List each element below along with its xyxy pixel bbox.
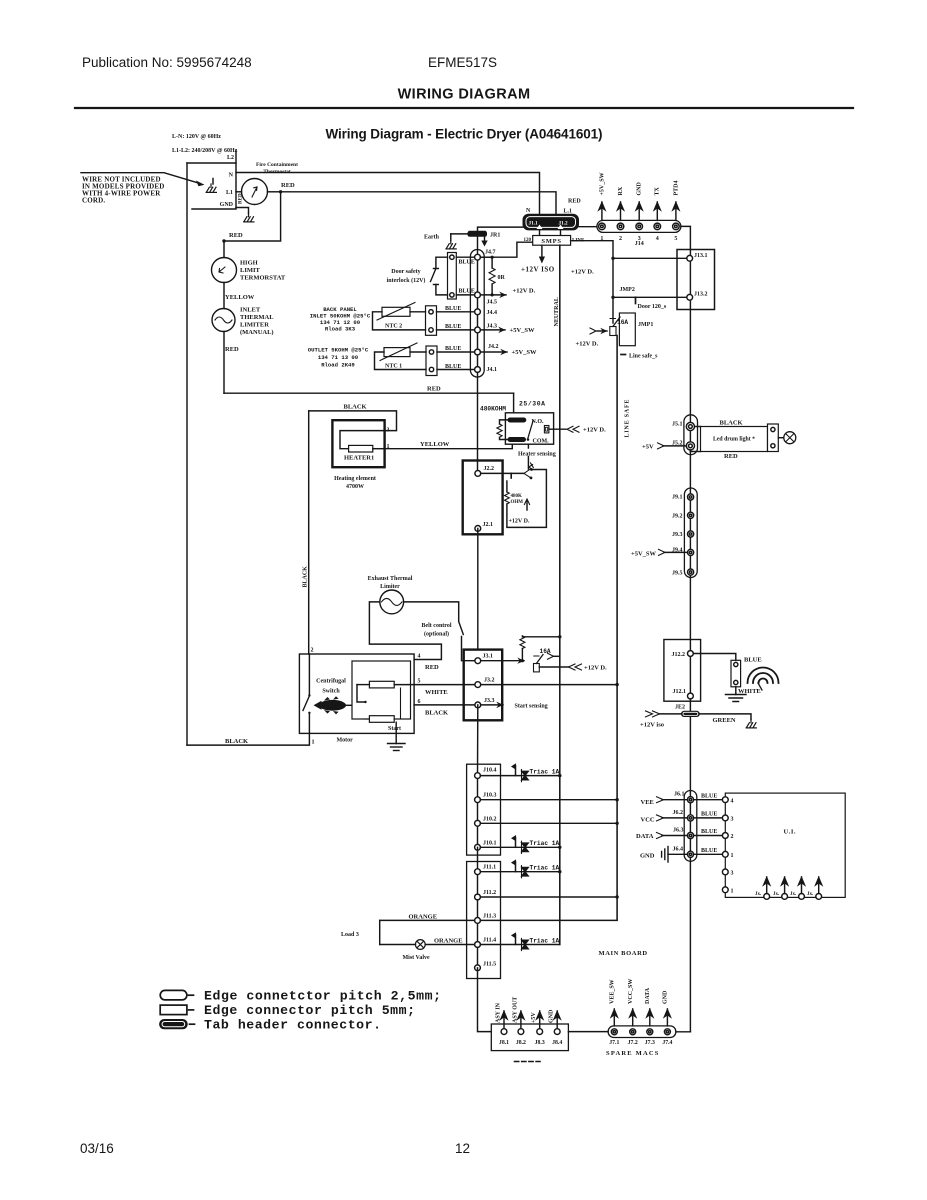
svg-text:Line safe_s: Line safe_s	[629, 353, 658, 359]
svg-text:+5V_SW: +5V_SW	[512, 349, 538, 356]
svg-text:4: 4	[731, 799, 734, 805]
svg-text:J3.3: J3.3	[484, 698, 495, 704]
svg-text:OUTLET 5KOHM @25°C: OUTLET 5KOHM @25°C	[308, 347, 369, 354]
resistor 0R	[480, 257, 492, 268]
svg-text:L1: L1	[226, 190, 233, 196]
svg-text:3: 3	[387, 428, 390, 434]
svg-text:interlock (12V): interlock (12V)	[387, 277, 426, 284]
svg-text:NTC 2: NTC 2	[385, 324, 402, 330]
power terminal box	[187, 163, 236, 209]
ground at L1 (4-wire note target)	[212, 179, 214, 185]
svg-text:J9.5: J9.5	[672, 571, 683, 577]
svg-text:(MANUAL): (MANUAL)	[240, 329, 274, 336]
svg-text:GREEN: GREEN	[713, 717, 736, 724]
svg-text:VEE_SW: VEE_SW	[610, 979, 616, 1004]
wire J11.4 triac to neutral	[480, 944, 559, 946]
svg-text:BLUE: BLUE	[701, 793, 717, 799]
triac at J10.1	[512, 836, 529, 853]
svg-text:+5V: +5V	[642, 443, 654, 450]
main column bus (J1.1 to J4)	[478, 227, 524, 256]
J7 pins	[611, 1029, 617, 1035]
svg-text:DATA: DATA	[636, 833, 654, 840]
drum light lamp	[778, 437, 784, 439]
pin J4.7	[475, 254, 481, 260]
svg-text:CORD.: CORD.	[82, 197, 105, 205]
drum light edge connector	[768, 424, 779, 452]
svg-text:J7.1: J7.1	[609, 1040, 619, 1046]
pin J6.4	[687, 851, 693, 857]
svg-text:2: 2	[619, 236, 622, 242]
buzzer edge connector	[731, 660, 741, 687]
J6 pill	[684, 791, 697, 862]
resistor to neutral	[521, 649, 523, 661]
outer left border wire	[186, 163, 188, 745]
svg-text:Triac 1A: Triac 1A	[530, 865, 560, 872]
wire J10.3 to line-safe bus	[480, 799, 617, 801]
svg-text:Start: Start	[388, 726, 401, 732]
+12V D. arrow at J4	[480, 294, 506, 296]
header rule	[75, 107, 853, 109]
fuse element at JMP1	[610, 327, 616, 336]
svg-text:BLUE: BLUE	[701, 848, 717, 854]
svg-text:J12.2: J12.2	[672, 652, 686, 658]
svg-text:J14: J14	[635, 241, 644, 247]
svg-text:TX: TX	[655, 186, 661, 195]
tab header JR1	[468, 231, 488, 237]
J7 pill	[608, 1026, 676, 1038]
svg-text:J2.2: J2.2	[484, 466, 495, 472]
svg-text:Tab header connector.: Tab header connector.	[204, 1018, 381, 1033]
svg-text:Fire Containment: Fire Containment	[256, 162, 298, 168]
pin J4.3	[475, 327, 481, 333]
wire J10.1 triac to neutral	[480, 846, 559, 848]
svg-text:+12V iso: +12V iso	[640, 722, 664, 729]
svg-text:TERMORSTAT: TERMORSTAT	[240, 275, 286, 282]
svg-text:+12V D.: +12V D.	[583, 426, 606, 433]
svg-text:5: 5	[418, 679, 421, 685]
wire J3 down to J10	[477, 705, 479, 776]
svg-text:BLUE: BLUE	[744, 657, 762, 664]
J12 box	[664, 640, 701, 702]
svg-text:J4.4: J4.4	[487, 310, 498, 316]
svg-text:J10.4: J10.4	[483, 768, 497, 774]
triac at J11.4	[512, 933, 529, 950]
svg-text:2: 2	[731, 834, 734, 840]
wire J3.1 to fuse	[481, 660, 524, 662]
svg-text:Heater sensing: Heater sensing	[518, 452, 556, 458]
terminal L2 stub	[235, 151, 237, 164]
pin J11.3	[475, 918, 481, 924]
wire white motor to J3.2	[414, 684, 474, 686]
svg-text:J11.2: J11.2	[483, 890, 496, 896]
pin J6.3	[687, 832, 693, 838]
pin J9.3	[688, 531, 694, 537]
+5V_SW arrow at J9.4	[664, 551, 688, 553]
wire limiter right to belt switch	[404, 602, 459, 621]
pin J4.2	[475, 349, 481, 355]
svg-text:BLACK: BLACK	[425, 710, 448, 717]
svg-text:Mist Valve: Mist Valve	[403, 955, 431, 961]
LINE SAFE bus	[616, 336, 618, 921]
svg-text:Triac 1A: Triac 1A	[530, 937, 560, 944]
svg-text:GND: GND	[549, 1009, 555, 1023]
GREEN wire to ground	[700, 714, 751, 720]
wire L1 to thermostat	[236, 191, 242, 193]
NTC1 edge connector	[426, 346, 437, 376]
relay coil	[500, 420, 508, 424]
svg-text:U.I.: U.I.	[784, 829, 796, 836]
JMP1 box	[619, 313, 635, 346]
right main bus from J14	[681, 226, 691, 1031]
svg-text:L.1: L.1	[564, 209, 573, 215]
door interlock edge connector	[448, 253, 457, 300]
U.I. box	[725, 793, 845, 897]
UI pin 1	[722, 851, 728, 857]
svg-text:1: 1	[312, 740, 315, 746]
svg-text:ASY IN: ASY IN	[496, 1002, 502, 1023]
svg-text:120: 120	[524, 238, 532, 243]
svg-text:J7.2: J7.2	[628, 1040, 638, 1046]
svg-text:J8.1: J8.1	[499, 1040, 509, 1046]
svg-text:Earth: Earth	[424, 235, 440, 241]
svg-text:J11.3: J11.3	[483, 914, 496, 920]
svg-text:JMP2: JMP2	[620, 287, 635, 293]
wire inlet limiter down to red bus	[223, 332, 225, 394]
pin J11.2	[475, 894, 481, 900]
pin J13.1	[687, 255, 693, 261]
YELLOW wire heater to relay	[385, 444, 513, 449]
svg-text:JE2: JE2	[675, 705, 685, 711]
note: wire not included callout box leader	[81, 173, 200, 184]
svg-text:134 71 13 00: 134 71 13 00	[318, 354, 359, 361]
svg-text:J3.2: J3.2	[484, 678, 495, 684]
tick line safe_s	[621, 354, 626, 356]
wire to J13.1	[613, 257, 687, 259]
wire L1 long run to J1.2	[281, 192, 556, 215]
svg-text:OHM: OHM	[511, 500, 524, 505]
svg-text:J11.5: J11.5	[483, 962, 496, 968]
svg-text:+12V D.: +12V D.	[509, 519, 530, 525]
svg-text:J11.1: J11.1	[483, 865, 496, 871]
svg-text:WHITE: WHITE	[425, 689, 448, 696]
svg-text:GND: GND	[220, 202, 234, 208]
svg-text:Jx.: Jx.	[790, 892, 797, 897]
svg-text:GND: GND	[637, 182, 643, 196]
arrow below JR1	[484, 237, 486, 242]
wires interlock to J4	[456, 256, 474, 258]
pin J10.1	[475, 844, 481, 850]
svg-text:J11.4: J11.4	[483, 938, 496, 944]
svg-text:03/16: 03/16	[80, 1141, 114, 1156]
high limit thermostat	[212, 258, 237, 283]
svg-text:12: 12	[455, 1141, 470, 1156]
wire J8 to J7	[568, 1031, 608, 1033]
relay contact N.O.	[508, 418, 527, 423]
svg-text:Led drum light *: Led drum light *	[713, 437, 755, 443]
pin J9.5	[688, 569, 694, 575]
mist valve	[415, 940, 425, 950]
svg-text:RED: RED	[425, 664, 439, 671]
svg-text:RED: RED	[225, 346, 239, 353]
svg-text:480K: 480K	[511, 494, 523, 499]
svg-text:NEUTRAL: NEUTRAL	[554, 297, 560, 326]
UI bottom pins with arrows	[764, 894, 770, 900]
svg-text:Belt control: Belt control	[421, 623, 451, 629]
wire J4.7 to SMPS	[480, 242, 532, 257]
svg-text:BLUE: BLUE	[701, 829, 717, 835]
LINE wire from SMPS	[571, 241, 613, 323]
svg-text:J4.5: J4.5	[487, 300, 498, 306]
svg-text:J4.7: J4.7	[485, 250, 496, 256]
wire J1 to J14	[579, 226, 597, 228]
svg-text:+12V ISO: +12V ISO	[521, 266, 555, 274]
wire J11.5 down to J8	[478, 968, 492, 1032]
legend edge connector 2.5mm symbol	[160, 990, 187, 1000]
fire containment thermostat	[242, 179, 268, 205]
+5V arrow at J5.2	[663, 445, 686, 447]
stub arrow at neutral	[553, 655, 560, 657]
svg-text:LINE SAFE: LINE SAFE	[625, 399, 631, 438]
svg-text:YELLOW: YELLOW	[225, 294, 255, 301]
svg-text:J6.4: J6.4	[673, 847, 684, 853]
svg-text:BLACK: BLACK	[303, 566, 309, 588]
wire J2.1 down to J3	[477, 528, 479, 649]
wire J10.2 to line-safe bus	[480, 822, 617, 824]
svg-text:Start sensing: Start sensing	[515, 704, 548, 710]
svg-text:BLUE: BLUE	[445, 346, 461, 352]
svg-text:RED: RED	[239, 193, 244, 204]
svg-text:J4.3: J4.3	[487, 324, 498, 330]
svg-text:+5V: +5V	[531, 1012, 537, 1023]
NTC1 loop wires	[410, 351, 426, 353]
pin J2.2	[475, 471, 481, 477]
wire GND to ground	[236, 208, 249, 214]
svg-text:Jx.: Jx.	[755, 892, 762, 897]
svg-text:N: N	[229, 173, 234, 179]
svg-text:Limiter: Limiter	[380, 584, 400, 590]
pin J4.6	[475, 292, 481, 298]
triac at J10.4	[512, 764, 529, 781]
svg-text:VCC: VCC	[641, 816, 655, 823]
+12V D. arrow into fuse	[597, 330, 607, 332]
svg-text:DATA: DATA	[645, 987, 651, 1004]
svg-text:J4.1: J4.1	[487, 367, 498, 373]
relay armature	[528, 421, 533, 439]
svg-text:J3.1: J3.1	[483, 654, 494, 660]
UI pin 3b	[722, 869, 728, 875]
svg-text:Thermostat: Thermostat	[263, 169, 291, 175]
wire J4.1 down across red bus to J2	[477, 370, 479, 474]
wire J11.1 triac to neutral	[480, 871, 559, 873]
svg-text:NTC 1: NTC 1	[385, 364, 402, 370]
SMPS box	[533, 236, 571, 246]
J13 box	[677, 250, 715, 310]
J10 box	[467, 764, 501, 855]
svg-text:J8.2: J8.2	[516, 1040, 526, 1046]
start winding ground	[395, 722, 397, 743]
relay box	[505, 413, 553, 444]
svg-text:1: 1	[600, 236, 603, 242]
heater inner loop	[340, 431, 385, 449]
svg-text:Jx.: Jx.	[807, 892, 814, 897]
pin J10.3	[475, 797, 481, 803]
triac at J11.1	[512, 860, 529, 877]
svg-text:3: 3	[731, 871, 734, 877]
svg-text:+12V D.: +12V D.	[576, 341, 599, 348]
motor inner box	[352, 661, 411, 719]
svg-text:Switch: Switch	[322, 689, 340, 695]
J3 box	[464, 650, 503, 721]
svg-text:Triac 1A: Triac 1A	[530, 769, 560, 776]
svg-text:6: 6	[418, 699, 421, 705]
svg-text:Edge connetctor pitch 2,5mm;: Edge connetctor pitch 2,5mm;	[204, 988, 441, 1003]
svg-text:MAIN BOARD: MAIN BOARD	[599, 950, 648, 957]
svg-text:VEE: VEE	[641, 799, 654, 806]
door interlock switch loop	[436, 257, 448, 267]
load3 bracket	[380, 920, 478, 944]
+12V iso arrow	[659, 713, 681, 715]
pin J11.4	[475, 942, 481, 948]
J8 pins	[501, 1029, 507, 1035]
svg-text:HIGH: HIGH	[240, 260, 258, 267]
svg-text:ASY OUT: ASY OUT	[512, 997, 518, 1023]
pin J10.4	[475, 773, 481, 779]
svg-text:Rload 2K49: Rload 2K49	[321, 362, 355, 369]
UI pin 1b	[722, 887, 728, 893]
svg-text:GND: GND	[663, 990, 669, 1004]
resistor NTC1	[384, 348, 410, 357]
svg-text:N: N	[526, 208, 531, 214]
pin J12.2	[688, 651, 694, 657]
svg-text:EFME517S: EFME517S	[428, 55, 497, 70]
svg-text:ORANGE: ORANGE	[434, 937, 463, 944]
svg-text:SPARE MACS: SPARE MACS	[606, 1050, 660, 1057]
wire J10.4 triac to neutral	[480, 775, 559, 777]
VCC arrow	[662, 817, 687, 819]
heater box	[332, 420, 384, 467]
NTC2 edge connector	[426, 306, 437, 336]
pin stubs J1 to SMPS	[539, 231, 541, 236]
svg-text:J8.3: J8.3	[535, 1040, 545, 1046]
junction at L1/RED	[279, 190, 282, 193]
wire J3.2 white to line-safe bus	[481, 684, 617, 686]
wire J11.2 to line-safe bus	[480, 896, 617, 898]
svg-text:J2.1: J2.1	[483, 522, 494, 528]
J8 box	[491, 1024, 568, 1051]
svg-text:Motor: Motor	[337, 738, 354, 744]
BLUE wires J6 to UI	[694, 799, 726, 801]
legend tab header symbol	[159, 1019, 188, 1029]
tab header connector J1	[523, 214, 580, 231]
svg-text:WIRING DIAGRAM: WIRING DIAGRAM	[398, 87, 531, 103]
svg-text:1: 1	[731, 889, 734, 895]
svg-text:J6.1: J6.1	[674, 792, 685, 798]
resistor NTC2	[382, 307, 410, 316]
J5 pill	[684, 415, 698, 455]
svg-text:J9.1: J9.1	[672, 495, 683, 501]
svg-text:J9.3: J9.3	[672, 532, 683, 538]
wire RED drop to high-limit	[224, 192, 281, 258]
pin J4.1	[475, 367, 481, 373]
motor pin1 wire to left border	[187, 733, 309, 745]
svg-text:COM.: COM.	[533, 439, 550, 445]
buzzer arcs	[748, 668, 779, 684]
wire black motor to J3.3	[414, 704, 474, 706]
+12V D. arrow to relay	[549, 428, 566, 430]
+5V_SW arrow at J4.3	[480, 329, 505, 331]
relay contact COM	[508, 437, 527, 442]
pin J4.4	[475, 309, 481, 315]
J4 pill outline	[470, 250, 484, 378]
wire N to J1.1	[236, 173, 540, 216]
svg-text:J10.1: J10.1	[483, 841, 497, 847]
motor winding blob	[314, 696, 347, 714]
svg-text:Jx.: Jx.	[773, 892, 780, 897]
svg-text:BLUE: BLUE	[459, 289, 475, 295]
pin J6.1	[687, 797, 693, 803]
svg-text:J6.3: J6.3	[673, 828, 684, 834]
wire JMP2 to J13.2	[613, 296, 687, 298]
pin J6.2	[687, 815, 693, 821]
NTC2 loop wires	[410, 311, 426, 313]
svg-text:BLACK: BLACK	[344, 404, 367, 411]
svg-text:+12V D.: +12V D.	[513, 288, 536, 295]
svg-text:Load 3: Load 3	[341, 932, 359, 938]
svg-text:J8.4: J8.4	[552, 1040, 562, 1046]
legend edge connector 5mm symbol	[160, 1005, 187, 1015]
svg-text:J13.1: J13.1	[694, 253, 708, 259]
svg-text:L2: L2	[227, 155, 234, 161]
pin J9.1	[688, 494, 694, 500]
wire J7 to main bus	[676, 1031, 691, 1033]
J10 column	[477, 776, 479, 848]
svg-text:GND: GND	[640, 852, 655, 859]
red bus drop to relay	[513, 393, 515, 413]
pin J12.1	[688, 693, 694, 699]
motor outer box	[299, 654, 414, 733]
J14 pill	[597, 220, 681, 232]
svg-text:3: 3	[731, 817, 734, 823]
svg-text:4: 4	[656, 236, 659, 242]
svg-text:4: 4	[418, 654, 421, 660]
svg-text:1: 1	[731, 853, 734, 859]
heater feed wire black	[309, 411, 397, 431]
buzzer ground	[735, 687, 737, 695]
pin J3.3	[475, 702, 481, 708]
J11 column	[477, 847, 479, 968]
pin J11.1	[475, 869, 481, 875]
+12V ISO arrow from SMPS	[541, 245, 543, 258]
svg-text:J1.1: J1.1	[529, 221, 538, 227]
svg-text:Heating element: Heating element	[334, 476, 376, 482]
svg-text:J7.4: J7.4	[662, 1040, 672, 1046]
svg-text:JMP1: JMP1	[638, 322, 653, 328]
svg-text:480KOHM: 480KOHM	[480, 406, 506, 413]
svg-text:THERMAL: THERMAL	[240, 314, 274, 321]
J2 box	[463, 461, 503, 535]
wires NTC1 to J4	[437, 351, 475, 353]
svg-text:J5.1: J5.1	[672, 422, 683, 428]
earth ground symbol	[450, 234, 452, 241]
pin J9.2	[688, 512, 694, 518]
svg-text:BLACK: BLACK	[225, 738, 248, 745]
svg-text:+5V_SW: +5V_SW	[599, 172, 605, 195]
svg-text:J4.2: J4.2	[488, 344, 499, 350]
svg-text:Publication No: 5995674248: Publication No: 5995674248	[82, 55, 252, 70]
svg-text:J10.3: J10.3	[483, 793, 497, 799]
J7 arrows up	[613, 1009, 615, 1026]
svg-text:5: 5	[674, 236, 677, 242]
